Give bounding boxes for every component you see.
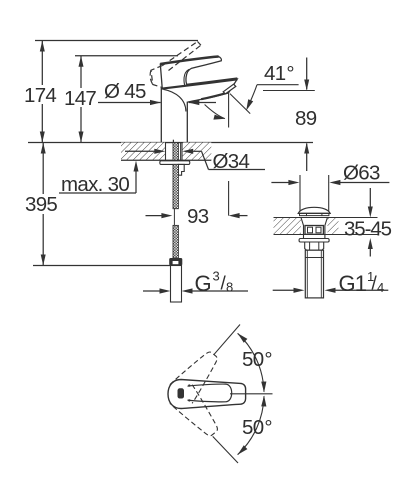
dimension G1 1/4: [273, 288, 389, 293]
drain tailpipe G1 1/4: [305, 250, 323, 298]
ray lower 50: [213, 436, 238, 463]
D63 extension lines: [299, 175, 301, 212]
angle 41 swing arc with arrow: [205, 105, 226, 120]
mounting washer under counter: [160, 161, 190, 165]
wire counter reference line: [28, 142, 313, 144]
spout underside edge: [201, 92, 229, 99]
arc lower 50 with arrows: [238, 396, 267, 455]
hose gap thin line: [173, 209, 175, 226]
svg-text:G1: G1: [339, 271, 367, 296]
handle neck inner curve: [184, 69, 189, 85]
handle top thick edge: [160, 57, 218, 65]
dimension D45 leader left: [98, 100, 161, 105]
dimension G3/8: [143, 288, 248, 293]
counter hole edges: [165, 143, 167, 161]
handle dashed rotated up 50: [170, 345, 225, 403]
svg-text:8: 8: [226, 280, 233, 295]
svg-text:147: 147: [64, 87, 96, 110]
body inner arc: [163, 89, 186, 111]
angle 41 stream vertical line: [228, 94, 230, 128]
41deg leader curve with arrow: [246, 85, 257, 111]
wire stream vertical extension: [228, 181, 230, 216]
ray upper 50: [214, 325, 240, 355]
dimension D34: [125, 149, 265, 170]
dimension 93: [146, 213, 248, 218]
handle dashed rotated down 50: [170, 385, 225, 443]
hose end connector G3/8: [169, 258, 182, 266]
aerator at spout tip: [223, 84, 236, 94]
handle top view solid outline: [168, 380, 246, 409]
label G1 1/4: [339, 269, 385, 296]
dimension 174: [40, 41, 45, 143]
wire top reference line 174: [35, 40, 198, 42]
arc upper 50 with arrows: [238, 333, 267, 392]
drain nut: [305, 242, 324, 250]
hole inner line right of shank: [180, 143, 182, 161]
drain washer under deck: [299, 239, 329, 243]
centerline horizontal: [230, 393, 273, 395]
drain cap underside: [300, 213, 329, 215]
handle lever solid: [160, 57, 221, 89]
svg-text:50 °: 50 °: [242, 416, 272, 439]
dimension 35-45 arrows: [368, 188, 373, 257]
drain dome cap: [298, 207, 330, 213]
svg-text:395: 395: [25, 193, 57, 216]
counter bottom line: [121, 159, 211, 161]
svg-text:50 °: 50 °: [242, 348, 272, 371]
svg-text:Ø 45: Ø 45: [104, 80, 146, 103]
dimension D63: [271, 180, 389, 185]
max30 leader with arrow: [59, 161, 139, 194]
drain body in hole: [301, 218, 327, 239]
41deg leader underline: [257, 84, 299, 86]
svg-text:4: 4: [377, 280, 384, 295]
dimension D45 leader right: [188, 100, 216, 105]
wire spout outlet reference line: [263, 90, 315, 92]
sink deck top line: [274, 217, 378, 219]
sink deck hatched left: [274, 218, 302, 235]
threaded shank braid through counter: [173, 143, 178, 161]
wire bottom reference line: [33, 265, 171, 267]
handle raised position dashed: [150, 42, 201, 88]
svg-text:G: G: [195, 271, 212, 296]
dimension 395: [41, 143, 46, 266]
faucet body and spout outline: [161, 79, 237, 143]
dimension 147: [79, 56, 84, 143]
svg-text:Ø34: Ø34: [213, 150, 250, 173]
sink deck bottom line: [274, 234, 378, 236]
svg-text:93: 93: [187, 205, 209, 228]
handle top view inner outline: [188, 384, 232, 402]
sink deck hatched right: [328, 218, 339, 235]
handle logo mark: [178, 388, 185, 398]
svg-text:3: 3: [213, 269, 220, 284]
dimension 89: [304, 58, 309, 172]
G3/8 pipe: [171, 266, 182, 303]
wire reference line 147: [75, 55, 178, 57]
mounting nut bracket: [178, 164, 184, 175]
handle detail dots: [188, 384, 190, 386]
svg-text:174: 174: [24, 84, 56, 107]
svg-text:Ø63: Ø63: [343, 162, 380, 185]
label G3/8: [195, 269, 234, 297]
counter cross-section hatched left: [121, 143, 166, 161]
counter cross-section hatched right: [182, 143, 211, 161]
flexible hose braided lower: [173, 225, 178, 258]
svg-text:41 °: 41 °: [264, 62, 294, 85]
angle 41 stream diagonal line: [230, 94, 250, 114]
flexible hose braided upper: [173, 164, 178, 208]
svg-text:35-45: 35-45: [344, 218, 392, 241]
shank center tick above counter: [172, 140, 174, 143]
spout top thick edge: [161, 79, 237, 88]
svg-text:89: 89: [295, 107, 317, 130]
